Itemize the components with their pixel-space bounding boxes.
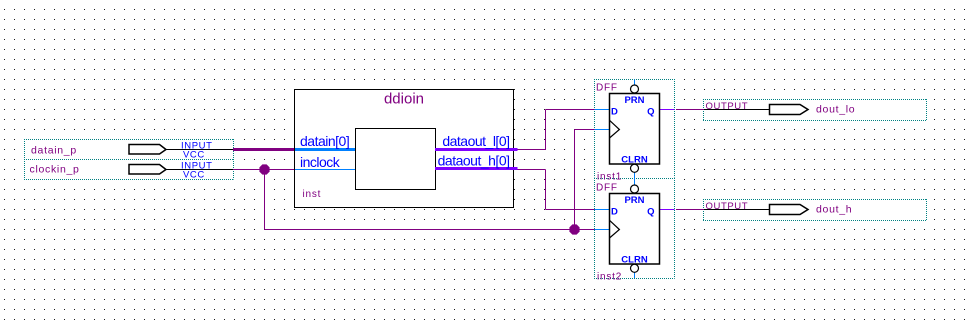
svg-text:clockin_p: clockin_p [30,164,80,176]
svg-text:datain[0]: datain[0] [300,133,349,149]
svg-text:inst2: inst2 [597,272,622,283]
svg-text:dout_h: dout_h [816,204,852,216]
svg-text:inst1: inst1 [597,172,622,183]
svg-text:ddioin: ddioin [384,91,424,108]
svg-text:inst: inst [303,189,322,200]
svg-text:datain_p: datain_p [31,145,77,157]
svg-text:VCC: VCC [183,170,205,181]
svg-text:inclock: inclock [300,154,341,170]
svg-text:dout_lo: dout_lo [816,104,855,116]
svg-text:dataout_h[0]: dataout_h[0] [438,153,510,169]
svg-text:VCC: VCC [183,150,205,161]
svg-text:dataout_l[0]: dataout_l[0] [442,133,509,149]
